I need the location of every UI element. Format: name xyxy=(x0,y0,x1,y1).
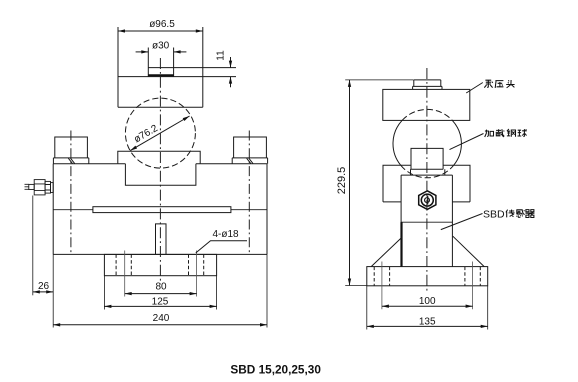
main body (left view) xyxy=(53,164,267,255)
label 4-ø18 xyxy=(196,229,247,253)
thick column edge xyxy=(400,222,402,266)
label SBD传感器 leader xyxy=(441,214,483,230)
load button xyxy=(411,148,445,175)
dimension 100 xyxy=(382,296,473,307)
centerline (front view) xyxy=(426,68,428,293)
dimension 80 xyxy=(125,281,197,293)
base plate hole centerlines xyxy=(382,262,473,310)
hex nut with bolt xyxy=(419,191,436,210)
vertical slot xyxy=(156,224,167,255)
cable gland xyxy=(25,180,54,195)
svg-text:135: 135 xyxy=(419,317,436,328)
label SBD传感器 glyphs xyxy=(506,209,535,217)
sensor column xyxy=(401,175,452,267)
label 加载钢球 leader xyxy=(450,134,484,150)
right mounting bolt block xyxy=(232,137,267,164)
svg-text:125: 125 xyxy=(152,296,169,307)
loading ball circle (front view) hidden dashed arcs xyxy=(401,109,454,177)
sensor upper ears xyxy=(383,165,470,202)
label SBD传感器 text xyxy=(483,209,505,221)
bolt holes dashed (left view) xyxy=(116,254,204,275)
base plate holes dashed xyxy=(374,267,480,286)
svg-text:ø30: ø30 xyxy=(152,40,170,51)
label 加载钢球 glyphs xyxy=(485,129,527,137)
column weld line xyxy=(401,221,452,223)
left mounting bolt block xyxy=(53,137,88,164)
label 承压头 leader xyxy=(466,83,483,94)
dimension ø30 xyxy=(136,40,187,52)
loading ball dashed circle (left view) xyxy=(125,98,195,168)
svg-text:4-ø18: 4-ø18 xyxy=(212,229,239,240)
svg-text:11: 11 xyxy=(216,50,227,61)
svg-text:SBD 15,20,25,30: SBD 15,20,25,30 xyxy=(230,362,321,376)
dimension 125 xyxy=(104,276,216,310)
horizontal slot xyxy=(53,207,267,213)
label 承压头 glyphs xyxy=(484,80,514,88)
dimension 240 xyxy=(53,254,267,327)
bolt hole centerlines (left view) xyxy=(125,251,197,297)
pressure head (front view) xyxy=(383,89,470,120)
boss ø30 on pressure head xyxy=(148,48,173,77)
dimension 26 xyxy=(33,196,53,296)
svg-text:26: 26 xyxy=(38,281,50,292)
ball seat flange xyxy=(118,151,200,164)
svg-text:80: 80 xyxy=(155,281,167,292)
support legs xyxy=(371,236,484,266)
dimension 11 xyxy=(174,50,236,87)
svg-text:ø76.2: ø76.2 xyxy=(132,123,160,146)
pressure head top block (left view) xyxy=(118,27,203,107)
dimension 135 xyxy=(367,286,488,330)
dimension ø76.2 diameter arrow xyxy=(130,116,189,151)
svg-text:240: 240 xyxy=(153,313,170,324)
top cap (front view) xyxy=(413,80,442,90)
base plate (left view) xyxy=(104,254,216,275)
loading ball circle (front view) solid visible arcs xyxy=(393,120,461,165)
dimension ø96.5 xyxy=(118,19,203,31)
base plate (front view) xyxy=(367,267,488,286)
svg-text:ø96.5: ø96.5 xyxy=(149,19,175,30)
bolt centerline right xyxy=(248,131,250,254)
svg-text:SBD: SBD xyxy=(483,209,505,221)
main centerline (left view) xyxy=(159,58,161,284)
dimension 229.5 xyxy=(336,80,414,286)
bolt centerline left xyxy=(70,131,72,254)
svg-text:229.5: 229.5 xyxy=(336,167,348,195)
ball seat pocket xyxy=(125,164,195,185)
svg-text:100: 100 xyxy=(419,296,436,307)
